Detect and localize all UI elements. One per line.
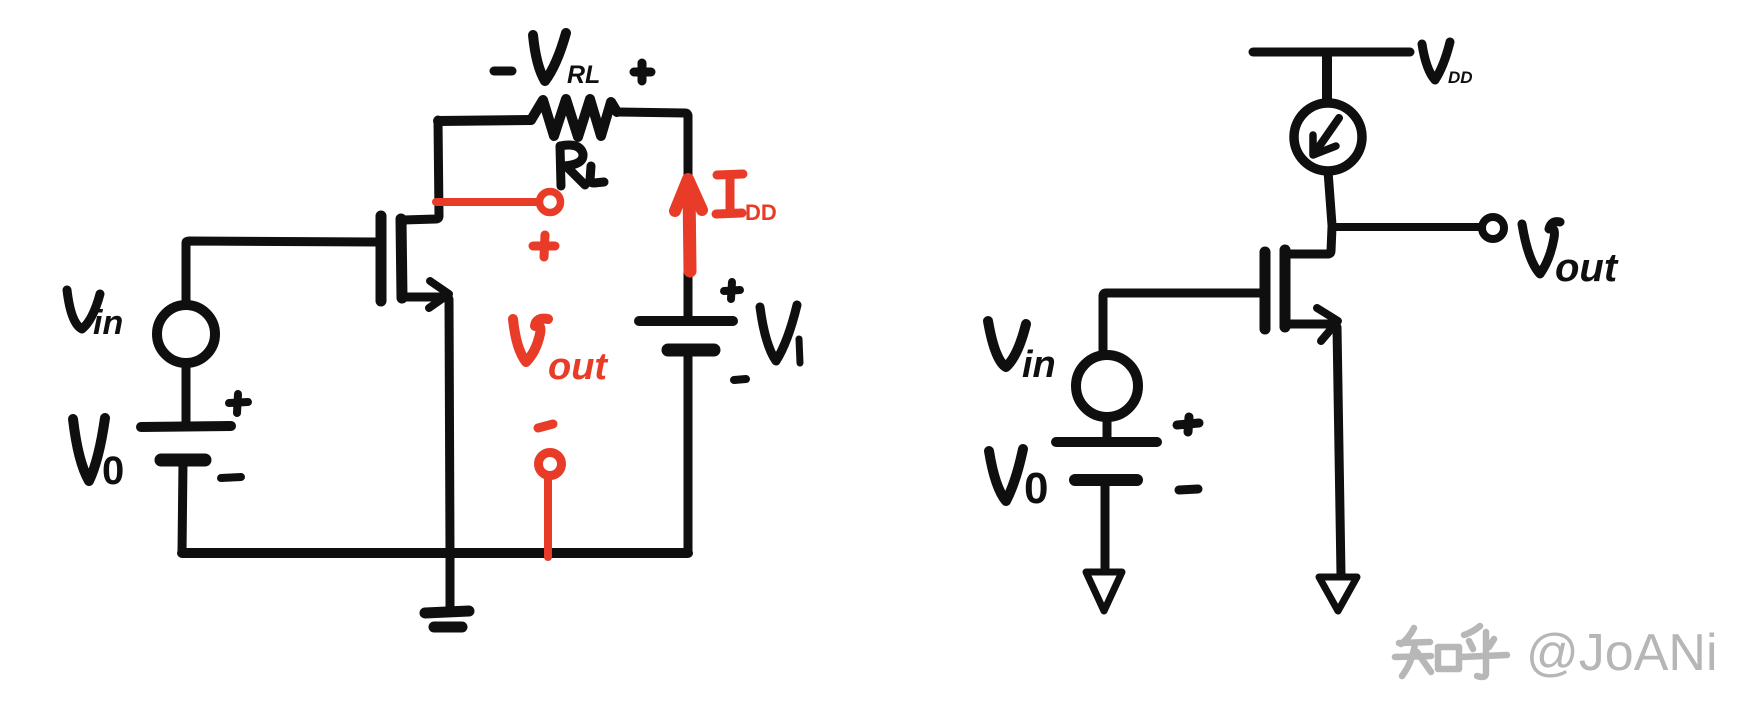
transistor M1 gate bar <box>376 216 387 301</box>
ground arrow right (hollow) <box>1319 577 1357 611</box>
label v of vin right <box>988 321 1026 367</box>
wire V0 bottom to ground rail <box>182 462 183 553</box>
wire gate of M2 from vin <box>1103 293 1261 352</box>
wire M1 drain lead up to resistor <box>403 120 439 220</box>
svg-text:0: 0 <box>1024 464 1048 513</box>
svg-text:@JoANi: @JoANi <box>1526 624 1718 682</box>
ground rail wire <box>182 548 688 558</box>
watermark zhi glyph <box>1395 628 1459 676</box>
ground symbol bar2 <box>434 622 462 633</box>
wire vin to V0 battery right <box>1103 417 1112 441</box>
battery V1 short plate <box>668 344 714 357</box>
label V of V0 <box>73 418 105 481</box>
wire M2 source lead <box>1287 320 1330 329</box>
label I of IDD <box>716 174 743 214</box>
ground symbol bar1 <box>425 611 469 613</box>
transistor M2 gate bar <box>1260 252 1271 329</box>
svg-text:in: in <box>93 304 123 342</box>
wire gate of M1 from vin top <box>186 241 377 305</box>
wire node to Vout terminal <box>1332 223 1482 231</box>
label V of Vout red <box>513 319 548 362</box>
label V of Vout right <box>1522 222 1560 274</box>
current source I1 arrow <box>1316 118 1339 151</box>
label v of vin <box>67 290 100 329</box>
label minus of V1 <box>734 379 746 380</box>
watermark <box>1395 626 1507 677</box>
label minus of Vout <box>538 424 553 428</box>
label plus of V0 <box>229 394 248 413</box>
label V of V0 right <box>989 449 1023 501</box>
current IDD arrow shaft <box>689 186 690 271</box>
node Vout open circle <box>1482 217 1504 239</box>
svg-text:DD: DD <box>745 200 777 225</box>
resistor RL zigzag <box>531 99 617 137</box>
label V of VRL <box>533 33 566 81</box>
wire M1 source down to rail <box>449 299 450 553</box>
wire red node top lead <box>436 198 536 206</box>
label V of V1 <box>760 305 797 361</box>
svg-text:RL: RL <box>567 61 600 89</box>
battery V0 right short plate <box>1075 474 1137 486</box>
wire vin bottom to V0 battery <box>182 363 191 424</box>
svg-text:0: 0 <box>102 449 124 493</box>
wire V0 right to ground arrow <box>1101 482 1110 571</box>
source vin right (circle) <box>1076 355 1138 417</box>
label 1 subscript of V1 <box>799 339 800 363</box>
label plus right of VRL <box>634 63 651 81</box>
label minus of VRL <box>494 67 512 76</box>
wire rail to ground symbol <box>446 553 455 608</box>
battery V0 right long plate <box>1056 437 1157 447</box>
svg-text:in: in <box>1022 344 1056 386</box>
source vin (circle) <box>157 305 215 363</box>
label plus of V0 right <box>1177 417 1199 432</box>
label minus of V0 <box>221 477 241 478</box>
M1 source arrowhead <box>429 281 449 308</box>
M2 source arrowhead <box>1317 308 1338 341</box>
svg-text:out: out <box>548 346 608 388</box>
value label RL of resistor <box>560 145 604 186</box>
wire M1 source lead <box>403 293 446 302</box>
transistor M2 channel bar <box>1280 250 1291 327</box>
wire resistor left lead <box>438 120 531 121</box>
wire I1 to drain node <box>1328 171 1332 225</box>
label plus of Vout <box>533 235 555 257</box>
watermark hu glyph <box>1461 626 1507 677</box>
ground arrow left (hollow) <box>1086 572 1122 611</box>
node Vout- open circle <box>539 453 562 476</box>
label V of VDD <box>1422 42 1450 80</box>
wire VDD stub <box>1322 56 1332 101</box>
svg-text:out: out <box>1555 246 1619 290</box>
wire red node bottom lead <box>544 477 552 557</box>
wire drain lead of M2 <box>1287 227 1332 254</box>
wire V1 bottom to rail <box>684 352 693 551</box>
current source I1 arrowhead <box>1313 135 1336 155</box>
svg-text:DD: DD <box>1448 68 1473 87</box>
label minus of V0 right <box>1179 489 1198 490</box>
VDD power rail <box>1253 48 1410 57</box>
battery V0 short plate <box>161 454 205 467</box>
battery V0 long plate <box>141 426 231 427</box>
node Vout+ open circle <box>540 192 561 213</box>
wire M2 source down <box>1337 327 1341 575</box>
current IDD arrowhead <box>675 179 702 211</box>
transistor M1 channel bar <box>401 219 402 298</box>
current source I1 circle <box>1294 103 1362 171</box>
wire resistor right lead <box>617 112 688 321</box>
battery V1 long plate <box>639 316 733 326</box>
label plus of V1 <box>724 282 740 299</box>
